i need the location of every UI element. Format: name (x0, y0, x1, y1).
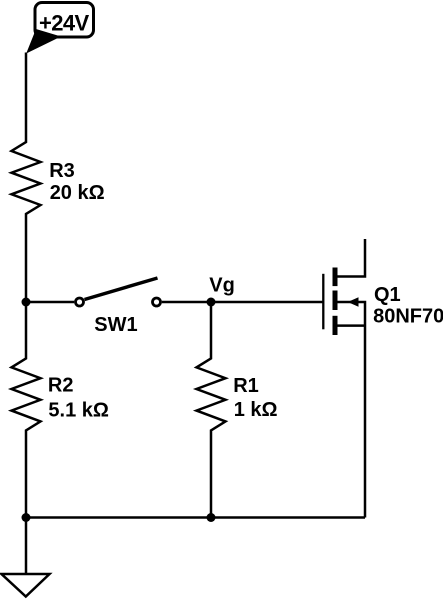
svg-text:+24V: +24V (39, 11, 90, 36)
svg-text:R2: R2 (48, 375, 74, 397)
svg-text:1 kΩ: 1 kΩ (234, 399, 278, 421)
svg-text:Q1: Q1 (374, 284, 401, 306)
svg-text:80NF70: 80NF70 (373, 305, 443, 327)
svg-text:R3: R3 (49, 160, 75, 182)
svg-text:Vg: Vg (209, 275, 235, 297)
svg-text:5.1 kΩ: 5.1 kΩ (48, 399, 109, 421)
svg-text:20 kΩ: 20 kΩ (50, 182, 105, 204)
svg-text:SW1: SW1 (94, 314, 137, 336)
svg-text:R1: R1 (233, 375, 259, 397)
